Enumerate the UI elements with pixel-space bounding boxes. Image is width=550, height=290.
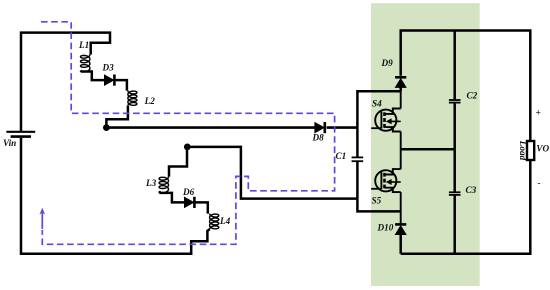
- svg-text:D9: D9: [381, 58, 394, 68]
- diode D9: [395, 77, 406, 87]
- wire L2 down to node A: [106, 106, 128, 128]
- wire C1 bottom to S5 source junction: [357, 162, 400, 212]
- inductor L2: [128, 91, 155, 107]
- svg-text:D6: D6: [182, 187, 195, 197]
- diode D10: [395, 224, 406, 234]
- wire D6 to L4: [195, 202, 208, 213]
- svg-text:Load: Load: [518, 140, 528, 161]
- wire C3 to bottom rail: [453, 195, 456, 254]
- wire C2 to mid rail: [453, 103, 456, 149]
- mid rail to C2/C3 junction: [401, 148, 455, 151]
- MOSFET S5: [371, 169, 401, 205]
- top rail to load: [401, 31, 531, 141]
- capacitor C3 branch wire: [453, 149, 456, 192]
- wire S4 drain to D9 junction: [400, 91, 402, 108]
- diode D8: [312, 122, 325, 143]
- wire S5 drain to mid rail: [400, 149, 402, 169]
- svg-text:C1: C1: [336, 151, 347, 161]
- svg-text:D8: D8: [312, 133, 325, 143]
- svg-text:-: -: [538, 178, 541, 188]
- wire D9 anode to C1 top: [357, 91, 400, 157]
- MOSFET S4: [371, 98, 401, 131]
- wire L1 to D3: [81, 71, 105, 81]
- inductor L3: [145, 177, 169, 193]
- svg-text:VO: VO: [536, 143, 549, 153]
- wire D9 anode down: [399, 87, 402, 91]
- svg-text:D10: D10: [377, 223, 394, 233]
- svg-text:S5: S5: [372, 195, 382, 205]
- dashed path arrowhead: [39, 208, 45, 215]
- wire L4 to bottom rail and to Vin-: [21, 138, 210, 254]
- svg-text:D3: D3: [102, 63, 115, 73]
- wire S4 source to mid rail: [400, 132, 402, 150]
- wire D8 to C1 top node: [327, 126, 358, 129]
- svg-text:C3: C3: [466, 185, 477, 195]
- svg-text:+: +: [536, 108, 541, 118]
- wire from Vin+ up and right to L1: [21, 33, 110, 132]
- capacitor C2 branch wire: [453, 31, 456, 100]
- inductor L1: [78, 40, 90, 72]
- battery Vin: [3, 132, 35, 148]
- wire node B to C1 bottom: [187, 147, 357, 199]
- svg-text:C2: C2: [467, 91, 478, 101]
- svg-text:L3: L3: [145, 178, 157, 188]
- wire S5 source to D10: [400, 192, 402, 223]
- svg-text:L1: L1: [78, 40, 89, 50]
- diode D6: [182, 187, 195, 208]
- capacitor C2: [449, 91, 478, 103]
- load resistor: [518, 140, 534, 161]
- wire D3 to L2: [115, 80, 127, 91]
- svg-text:L4: L4: [219, 216, 231, 226]
- dashed path arrow shaft: [41, 213, 43, 229]
- inductor L4: [210, 214, 231, 230]
- wire L3 to D6: [159, 191, 185, 202]
- capacitor C1: [336, 151, 364, 161]
- wire node B down to L3: [169, 147, 187, 177]
- capacitor C3: [449, 185, 477, 195]
- wire node A to D8: [106, 126, 315, 129]
- green highlighted region: [371, 3, 480, 286]
- svg-text:L2: L2: [144, 96, 156, 106]
- svg-text:S4: S4: [372, 98, 382, 108]
- svg-text:Vin: Vin: [3, 138, 16, 148]
- node B: [184, 144, 191, 151]
- bottom rail to load: [401, 160, 531, 254]
- node A: [103, 124, 110, 131]
- diode D3: [102, 63, 115, 86]
- wire D10 anode to bottom rail: [399, 235, 402, 254]
- dashed current path: [41, 22, 335, 245]
